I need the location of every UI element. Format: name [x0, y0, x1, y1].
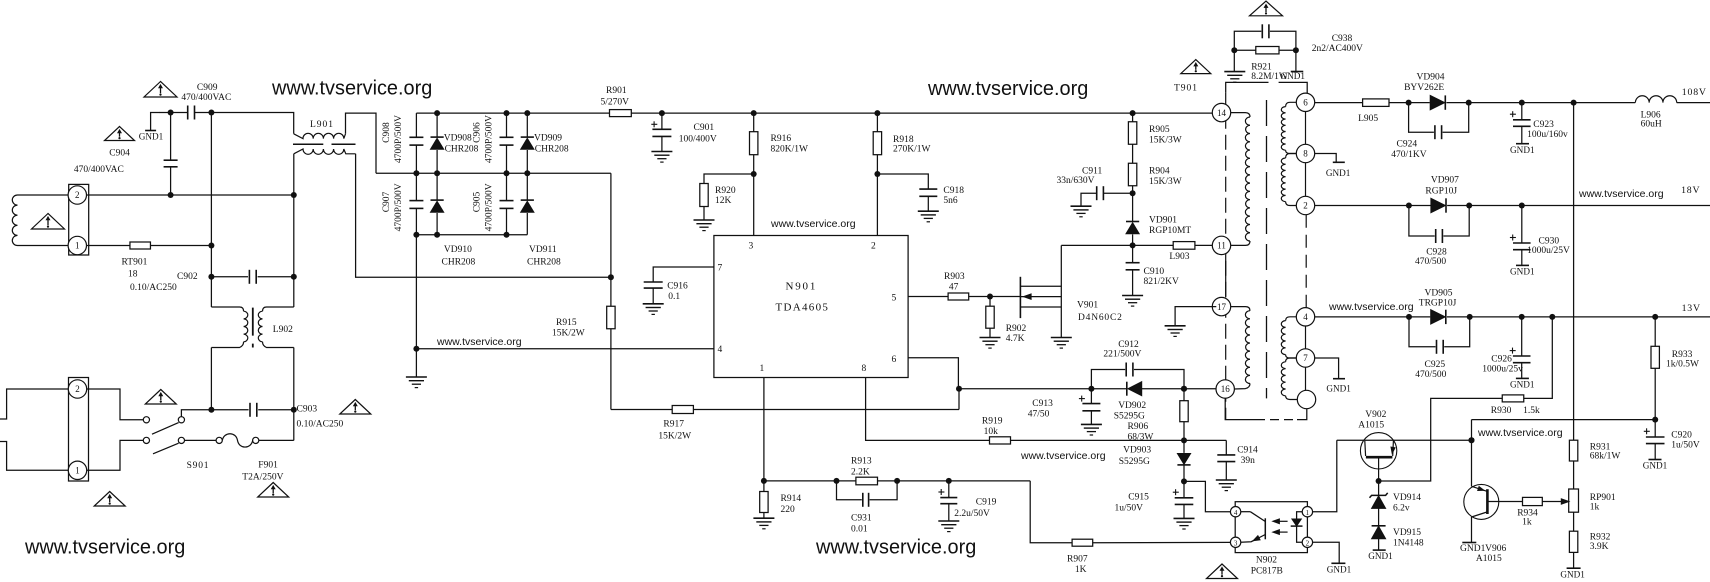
svg-text:15K/3W: 15K/3W [1149, 177, 1182, 187]
wire top rail to T901 pin14 [631, 112, 1212, 114]
wire N902 pin2 to GND1 [1313, 542, 1340, 563]
MOSFET V901 [1019, 277, 1021, 318]
resistor R932 [1569, 531, 1577, 552]
svg-text:VD904: VD904 [1417, 72, 1445, 82]
svg-text:1: 1 [760, 364, 765, 374]
svg-text:VD914: VD914 [1393, 493, 1421, 503]
svg-text:VD908: VD908 [444, 133, 472, 143]
svg-text:www.tvservice.org: www.tvservice.org [1578, 188, 1664, 200]
resistor R921 [1256, 47, 1279, 54]
diode VD915 [1372, 525, 1386, 527]
resistor R906 [1183, 389, 1185, 401]
svg-text:4700P/500V: 4700P/500V [485, 115, 495, 163]
wire C909 to L901 [195, 113, 294, 134]
svg-text:A1015: A1015 [1476, 554, 1502, 564]
GND1 right of R921 [1295, 50, 1297, 71]
wire mid rail from L901 [376, 172, 611, 174]
wire X2 pin2 to switch [87, 389, 143, 420]
capacitor C906 column [506, 113, 508, 137]
warning triangle above S901 [145, 390, 176, 405]
svg-text:C903: C903 [297, 405, 318, 415]
T901 pin nc [1297, 390, 1315, 408]
svg-text:821/2KV: 821/2KV [1144, 277, 1180, 287]
svg-text:L902: L902 [273, 325, 293, 335]
resistor R917 [611, 409, 672, 411]
wire L901 bottom out [356, 154, 611, 277]
svg-text:3.9K: 3.9K [1590, 542, 1609, 552]
svg-text:4700P/500V: 4700P/500V [394, 115, 404, 163]
diode VD903 [1183, 440, 1185, 453]
svg-text:S5295G: S5295G [1119, 457, 1150, 467]
switch S901 pole1 [143, 417, 149, 423]
resistor R934 [1487, 501, 1522, 503]
T901 pin links right side [1305, 112, 1307, 145]
svg-text:0.10/AC250: 0.10/AC250 [130, 283, 177, 293]
N902 phototransistor [1264, 518, 1266, 539]
svg-text:6: 6 [1303, 98, 1308, 108]
svg-text:C938: C938 [1332, 34, 1353, 44]
wire bridge bottom rail [416, 234, 527, 236]
svg-text:GND1: GND1 [1368, 551, 1393, 561]
svg-text:1: 1 [75, 241, 80, 251]
svg-text:R906: R906 [1128, 422, 1149, 432]
shield top hook to pin6 [1226, 82, 1269, 92]
svg-text:RGP10J: RGP10J [1425, 187, 1457, 197]
svg-text:C907: C907 [382, 191, 392, 212]
svg-text:1: 1 [75, 466, 80, 476]
transformer T901 winding 17-16 [1231, 307, 1250, 311]
transformer T901 core dashed [1266, 100, 1268, 398]
connector X2 pin 2 [68, 380, 86, 398]
svg-text:VD911: VD911 [529, 245, 557, 255]
svg-text:7: 7 [1303, 353, 1308, 363]
svg-text:S901: S901 [187, 461, 210, 471]
svg-text:14: 14 [1217, 108, 1227, 118]
capacitor C931 loop [837, 481, 862, 500]
ground negative bus [406, 376, 427, 378]
wire 18V rail [1469, 205, 1710, 207]
wire 108V divider down [1573, 103, 1575, 441]
svg-text:C910: C910 [1144, 267, 1165, 277]
bridge junction dots [434, 110, 440, 116]
svg-text:4700P/500V: 4700P/500V [394, 183, 404, 231]
wire L902 right down [293, 348, 295, 410]
svg-text:C909: C909 [197, 83, 218, 93]
N902 pin 3 [1230, 537, 1240, 547]
resistor R914 [763, 481, 765, 492]
resistor R916 [751, 110, 757, 116]
resistor RT901 [87, 245, 131, 247]
transformer T901 secondary winding 7-nc [1286, 358, 1297, 362]
svg-text:CHR208: CHR208 [442, 257, 476, 267]
svg-text:2: 2 [75, 190, 80, 200]
wire mid rail down to R915 [610, 173, 612, 306]
switch S901 pole2 [143, 437, 149, 443]
capacitor C919 electrolytic [948, 481, 950, 498]
connector X1 body [69, 184, 89, 255]
svg-text:R932: R932 [1590, 533, 1611, 543]
svg-text:47: 47 [949, 283, 959, 293]
svg-text:R918: R918 [893, 135, 914, 145]
mains squiggle [12, 195, 17, 246]
connector X1 pin 1 [68, 236, 86, 254]
svg-text:C906: C906 [473, 122, 483, 143]
svg-text:C919: C919 [976, 497, 997, 507]
T901 pin 8 [1296, 144, 1314, 162]
svg-text:17: 17 [1217, 302, 1227, 312]
diode VD908 [436, 113, 438, 137]
svg-text:2.2u/50V: 2.2u/50V [954, 509, 990, 519]
svg-text:GND1: GND1 [1643, 461, 1668, 471]
svg-text:N901: N901 [786, 281, 818, 293]
wire V902 rail [1337, 439, 1472, 441]
wire connector1 pin2 left [18, 194, 69, 196]
svg-text:C928: C928 [1426, 248, 1447, 258]
svg-text:4700P/500V: 4700P/500V [485, 183, 495, 231]
N902 pin 2 [1302, 537, 1312, 547]
svg-text:L903: L903 [1169, 252, 1189, 262]
svg-text:R919: R919 [982, 416, 1003, 426]
svg-text:8: 8 [1303, 149, 1308, 159]
capacitor C926 electrolytic [1521, 317, 1523, 356]
svg-text:R917: R917 [663, 420, 684, 430]
diode VD910 [436, 173, 438, 200]
GND1 hook for C909 [151, 113, 160, 131]
svg-text:www.tvservice.org: www.tvservice.org [436, 336, 522, 348]
resistor R903 [908, 296, 948, 298]
svg-text:L901: L901 [310, 120, 334, 130]
capacitor C914 [1225, 440, 1227, 455]
svg-text:0.10/AC250: 0.10/AC250 [297, 419, 344, 429]
capacitor C908 column [415, 113, 417, 137]
svg-text:C908: C908 [382, 122, 392, 143]
resistor R915 [607, 306, 615, 329]
wire N902 pin1 up [1313, 440, 1337, 512]
warning triangle above T901 label [1181, 60, 1211, 74]
svg-text:VD915: VD915 [1393, 528, 1421, 538]
wire emitter junction down [1471, 420, 1473, 487]
svg-text:R913: R913 [851, 456, 872, 466]
wire pin6 down [908, 358, 958, 389]
wire pin4 line to N901 [416, 348, 714, 350]
capacitor C903 [249, 403, 251, 417]
wire X2 pin1 to switch [87, 440, 143, 470]
transistor V902 [1360, 433, 1396, 469]
capacitor C904 [170, 113, 172, 161]
resistor R920 [704, 174, 754, 184]
svg-text:68k/1W: 68k/1W [1590, 452, 1621, 462]
svg-text:15K/3W: 15K/3W [1149, 135, 1182, 145]
warning triangle above C909 [144, 82, 177, 98]
inductor L902 left winding [211, 307, 243, 311]
wire fuse feed [184, 419, 186, 421]
svg-text:47/50: 47/50 [1028, 410, 1050, 420]
wire pin6 to L905 [1315, 102, 1363, 104]
svg-text:GND1: GND1 [1510, 380, 1535, 390]
diode VD905 [1431, 310, 1446, 324]
svg-text:1000u/25v: 1000u/25v [1482, 364, 1523, 374]
capacitor C911 [1096, 186, 1098, 200]
diode VD909 [526, 113, 528, 137]
N902 LED [1297, 512, 1303, 519]
svg-text:BYV262E: BYV262E [1404, 83, 1444, 93]
svg-text:2: 2 [1306, 540, 1310, 548]
wire 13V rail [1470, 316, 1710, 318]
svg-text:C931: C931 [851, 513, 872, 523]
capacitor C930 electrolytic [1521, 206, 1523, 244]
transformer T901 bottom link [1225, 398, 1256, 419]
resistor R902 [989, 297, 991, 307]
svg-text:C924: C924 [1397, 140, 1418, 150]
vertical bus x=294 from L901 bottom to L902 [293, 154, 295, 307]
capacitor C905 [506, 173, 508, 200]
svg-text:C905: C905 [473, 191, 483, 212]
resistor R933 [1654, 317, 1656, 347]
resistor R901 [610, 110, 632, 117]
svg-text:12K: 12K [715, 196, 732, 206]
svg-text:470/400VAC: 470/400VAC [74, 165, 124, 175]
svg-text:C930: C930 [1539, 236, 1560, 246]
wire pin8 down [866, 378, 990, 441]
svg-text:4: 4 [718, 345, 723, 355]
svg-text:33n/630V: 33n/630V [1057, 176, 1095, 186]
warning triangle below F901 [258, 483, 289, 498]
svg-text:C902: C902 [177, 272, 198, 282]
svg-text:C926: C926 [1491, 355, 1512, 365]
wire pin1 node line [764, 480, 856, 482]
svg-text:TRGP10J: TRGP10J [1419, 299, 1457, 309]
svg-text:GND1: GND1 [1326, 168, 1351, 178]
svg-text:5/270V: 5/270V [601, 98, 630, 108]
R921 C938 loop [1234, 31, 1261, 50]
svg-text:220: 220 [781, 505, 796, 515]
inductor L903 [1173, 242, 1195, 250]
T901 pin 2 [1296, 196, 1314, 214]
svg-text:15K/2W: 15K/2W [658, 431, 691, 441]
svg-text:R902: R902 [1006, 324, 1027, 334]
svg-text:C912: C912 [1118, 340, 1139, 350]
resistor R918 [874, 110, 880, 116]
svg-text:108V: 108V [1682, 87, 1707, 98]
wire pin7 to GND1 [1315, 358, 1339, 378]
T901 pin 11 [1212, 236, 1230, 254]
svg-text:100u/160v: 100u/160v [1527, 130, 1568, 140]
svg-text:N902: N902 [1256, 556, 1277, 566]
diode VD902 [1126, 382, 1128, 396]
T901 pin 14 [1212, 103, 1230, 121]
svg-text:GND1: GND1 [1510, 145, 1535, 155]
resistor R905 [1130, 110, 1136, 116]
svg-text:VD907: VD907 [1431, 176, 1459, 186]
svg-text:16: 16 [1221, 384, 1231, 394]
warning triangle above C904 [105, 127, 135, 141]
capacitor C924 snubber loop [1409, 103, 1434, 133]
capacitor C913 electrolytic [1090, 389, 1092, 404]
svg-text:C925: C925 [1425, 360, 1446, 370]
svg-text:V902: V902 [1365, 410, 1386, 420]
T901 pin 4 [1296, 308, 1314, 326]
svg-text:2: 2 [75, 384, 80, 394]
wire pin17 to chassis ground [1175, 307, 1216, 326]
svg-text:C914: C914 [1237, 446, 1258, 456]
capacitor C916 on pin7 [653, 267, 714, 282]
wire X2 pin1 left stub [0, 442, 68, 471]
svg-text:68/3W: 68/3W [1128, 433, 1154, 443]
svg-text:1K: 1K [1075, 565, 1087, 575]
inductor L902 right winding [263, 307, 294, 311]
optocoupler N902 body [1235, 502, 1307, 553]
svg-text:7: 7 [718, 264, 723, 274]
svg-text:2.2K: 2.2K [851, 468, 870, 478]
wire L902 left down [210, 348, 212, 410]
svg-text:0.01: 0.01 [851, 525, 868, 535]
T901 pin 16 [1216, 380, 1234, 398]
wire pin4 to VD905 [1315, 316, 1431, 318]
T901 pin 7 [1296, 349, 1314, 367]
svg-text:470/500: 470/500 [1415, 257, 1446, 267]
svg-text:1k: 1k [1590, 503, 1600, 513]
svg-text:D4N60C2: D4N60C2 [1078, 313, 1123, 323]
wire R917 up to pin6 node [958, 389, 960, 410]
resistor R919 [990, 437, 1011, 444]
vertical bus x=211 from C909 to L902 [210, 113, 212, 308]
svg-text:VD909: VD909 [534, 133, 562, 143]
svg-text:R920: R920 [715, 186, 736, 196]
capacitor C901 electrolytic [659, 110, 665, 116]
svg-text:R904: R904 [1149, 166, 1170, 176]
svg-text:www.tvservice.org: www.tvservice.org [1020, 450, 1106, 462]
resistor R907 [1072, 539, 1093, 546]
capacitor C923 electrolytic [1521, 103, 1523, 120]
svg-text:13V: 13V [1682, 303, 1701, 314]
svg-text:CHR208: CHR208 [445, 145, 479, 155]
svg-text:15K/2W: 15K/2W [552, 328, 585, 338]
svg-text:GND1: GND1 [1280, 71, 1305, 81]
svg-text:CHR208: CHR208 [527, 257, 561, 267]
svg-text:1N4148: 1N4148 [1393, 539, 1424, 549]
fuse F901 [185, 439, 217, 441]
transformer T901 primary winding 14-11 [1231, 113, 1250, 117]
svg-text:C904: C904 [109, 149, 130, 159]
warning triangle below connector X2 [94, 492, 125, 507]
wire 108V rail [1469, 102, 1636, 104]
wire pin2 rail [87, 194, 294, 196]
svg-text:R930: R930 [1491, 406, 1512, 416]
capacitor C918 [877, 174, 928, 189]
capacitor C912 snubber loop [1091, 370, 1125, 389]
svg-text:GND1: GND1 [139, 132, 164, 142]
svg-text:221/500V: 221/500V [1103, 350, 1141, 360]
svg-text:www.tvservice.org: www.tvservice.org [1477, 427, 1563, 439]
svg-text:R905: R905 [1149, 125, 1170, 135]
svg-text:C920: C920 [1671, 431, 1692, 441]
svg-text:V906: V906 [1485, 544, 1506, 554]
svg-text:C913: C913 [1032, 399, 1053, 409]
svg-text:5n6: 5n6 [943, 196, 958, 206]
svg-text:R933: R933 [1672, 350, 1693, 360]
svg-text:www.tvservice.org: www.tvservice.org [770, 218, 856, 230]
capacitor C910 [1132, 245, 1134, 262]
svg-text:820K/1W: 820K/1W [771, 145, 809, 155]
capacitor C920 electrolytic [1654, 420, 1656, 437]
diode VD911 [526, 173, 528, 200]
svg-text:T2A/250V: T2A/250V [242, 472, 283, 482]
ground left of R921 [1233, 50, 1235, 71]
svg-text:TDA4605: TDA4605 [776, 302, 830, 314]
svg-text:C918: C918 [943, 186, 964, 196]
svg-text:270K/1W: 270K/1W [893, 145, 931, 155]
svg-text:www.tvservice.org: www.tvservice.org [927, 78, 1088, 100]
diode VD904 [1430, 95, 1445, 109]
capacitor C925 snubber loop [1409, 317, 1436, 347]
svg-text:C916: C916 [667, 282, 688, 292]
wire pin1 down [763, 378, 765, 481]
svg-text:CHR208: CHR208 [535, 145, 569, 155]
N902 pin 4 [1230, 507, 1240, 517]
wire pin8 to GND1 [1315, 154, 1337, 162]
resistor R913 [856, 477, 878, 485]
connector X1 pin 2 [68, 186, 86, 204]
node B - junction C909 right [208, 110, 214, 116]
svg-text:R907: R907 [1067, 554, 1088, 564]
svg-text:R903: R903 [944, 272, 965, 282]
svg-text:T901: T901 [1174, 84, 1198, 94]
svg-text:10k: 10k [984, 427, 999, 437]
svg-text:470/400VAC: 470/400VAC [181, 93, 231, 103]
warning triangle near connector X1 [32, 214, 65, 230]
svg-text:4: 4 [1303, 312, 1308, 322]
svg-text:0.1: 0.1 [668, 292, 680, 302]
transformer T901 secondary winding 6-8 [1286, 102, 1297, 106]
inductor L901 core [293, 143, 323, 145]
svg-text:R914: R914 [781, 494, 802, 504]
svg-text:V901: V901 [1077, 301, 1098, 311]
svg-text:www.tvservice.org: www.tvservice.org [815, 537, 976, 559]
inductor L906 [1635, 96, 1676, 103]
svg-text:100/400V: 100/400V [679, 135, 717, 145]
connector X2 body [69, 378, 89, 482]
svg-text:C901: C901 [694, 123, 715, 133]
svg-text:2: 2 [871, 242, 876, 252]
N902 pin 1 [1302, 507, 1312, 517]
inductor L905 [1363, 99, 1389, 107]
svg-text:C915: C915 [1128, 493, 1149, 503]
svg-text:3: 3 [1234, 540, 1238, 548]
svg-text:GND1: GND1 [1560, 570, 1585, 580]
capacitor C907 [415, 173, 417, 200]
wire C909 line [160, 112, 188, 114]
svg-text:470/500: 470/500 [1415, 370, 1446, 380]
svg-text:VD903: VD903 [1123, 446, 1151, 456]
inductor L901 top winding [294, 133, 346, 138]
transformer T901 shield dashed [1225, 93, 1227, 420]
wire emitter line [1472, 419, 1656, 421]
svg-text:VD905: VD905 [1425, 288, 1453, 298]
svg-text:VD910: VD910 [444, 245, 472, 255]
inductor L901 bottom winding [294, 149, 356, 154]
wire to R907 [1030, 481, 1072, 543]
warning triangle above C938 [1250, 1, 1283, 16]
svg-text:60uH: 60uH [1641, 120, 1662, 130]
svg-text:4.7K: 4.7K [1006, 334, 1025, 344]
svg-text:2n2/AC400V: 2n2/AC400V [1312, 44, 1363, 54]
capacitor C928 snubber loop [1409, 206, 1435, 237]
connector X2 pin 1 [68, 461, 86, 479]
svg-text:5: 5 [892, 293, 897, 303]
resistor R904 [1132, 144, 1134, 163]
transistor V906 [1464, 484, 1499, 519]
wire pin2 to VD907 [1315, 205, 1431, 207]
